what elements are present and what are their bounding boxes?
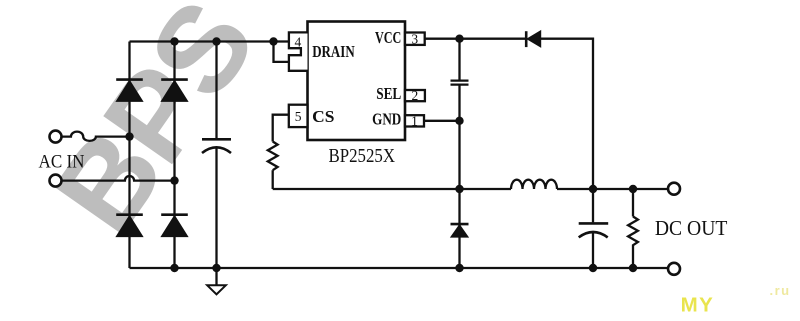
terminal AC bottom [50, 175, 62, 187]
pin 2 SEL pad [405, 90, 425, 101]
svg-text:CS: CS [312, 107, 334, 126]
bottom rail wire [130, 267, 669, 269]
inductor L1 [511, 180, 557, 189]
VCC capacitor C2 plates [451, 81, 469, 85]
CS resistor bottom lead wire [272, 170, 274, 189]
node dot top AC junction [125, 132, 133, 140]
watermark BPS [28, 0, 280, 256]
drain strap wire [274, 42, 289, 62]
svg-text:GND: GND [372, 109, 401, 128]
bulk capacitor C1 plates [202, 139, 231, 153]
diode D5 boost/VCC horizontal [526, 31, 540, 47]
left bridge branch wire [128, 42, 130, 269]
terminal DC OUT minus [668, 263, 680, 275]
node dot freewheel bottom [455, 264, 463, 272]
output top wire [557, 188, 668, 190]
svg-text:.ru: .ru [770, 283, 791, 298]
load resistor R2 leads wire [632, 189, 634, 268]
node dot bottom AC junction [170, 176, 178, 184]
node dot output cap top [589, 185, 597, 193]
node dot GND pin junction [455, 117, 463, 125]
diode D3 bridge bottom-left [116, 215, 143, 237]
svg-text:DRAIN: DRAIN [312, 42, 355, 61]
svg-text:1: 1 [411, 113, 418, 128]
node dot bottom rail cap branch [212, 264, 220, 272]
diode D4 bridge bottom-right [161, 215, 188, 237]
bulk capacitor top lead wire [215, 42, 217, 139]
terminal AC top [50, 131, 62, 143]
svg-text:BPS: BPS [28, 0, 280, 256]
svg-text:5: 5 [295, 109, 302, 124]
pin 4 DRAIN pad [289, 32, 308, 70]
fuse F1 and top AC wire [61, 132, 129, 141]
svg-text:MY: MY [681, 294, 715, 317]
op-amp U1 BP2525X body [308, 22, 406, 141]
ground stub wire [215, 268, 217, 285]
GND wire [424, 120, 460, 122]
node dot top rail cap branch [212, 37, 220, 45]
pin 3 VCC pad [405, 33, 425, 45]
node dot switch node [455, 185, 463, 193]
pin 5 CS pad [289, 105, 308, 127]
VCC capacitor leads wire [458, 39, 460, 268]
CS wire [273, 115, 289, 142]
diode D1 bridge top-left [116, 80, 143, 102]
top rail wire [130, 40, 274, 42]
node dot top rail right branch [170, 37, 178, 45]
pin 1 GND pad [405, 115, 424, 126]
diode D6 freewheeling [451, 224, 469, 237]
resistor R1 (CS) [268, 142, 278, 171]
svg-text:BP2525X: BP2525X [329, 145, 396, 167]
svg-text:VCC: VCC [375, 28, 401, 47]
output capacitor C3 lead wire [592, 189, 594, 268]
node dot drain strap [269, 37, 277, 45]
node dot load resistor bottom [629, 264, 637, 272]
svg-text:SEL: SEL [376, 84, 401, 103]
output capacitor C3 plates [579, 223, 609, 237]
svg-text:3: 3 [411, 31, 418, 46]
svg-text:AC IN: AC IN [39, 152, 85, 173]
node dot bottom rail right branch [170, 264, 178, 272]
right bridge branch wire [173, 42, 175, 269]
diode D2 bridge top-right [161, 80, 188, 102]
VCC wire [425, 38, 526, 40]
CS bottom horizontal wire [273, 188, 511, 190]
node dot output cap bottom [589, 264, 597, 272]
bottom AC wire with crossover hop [61, 176, 174, 181]
VCC wire right segment and vertical [540, 39, 593, 189]
node dot VCC cap top [455, 35, 463, 43]
svg-text:DC OUT: DC OUT [655, 216, 728, 240]
svg-text:4: 4 [295, 34, 302, 49]
svg-text:2: 2 [412, 88, 419, 103]
terminal DC OUT plus [668, 183, 680, 195]
drain wire [274, 40, 289, 42]
resistor R2 (load) [628, 217, 638, 248]
bulk capacitor bottom lead wire [215, 148, 217, 269]
node dot load resistor top [629, 185, 637, 193]
ground symbol [207, 285, 226, 294]
